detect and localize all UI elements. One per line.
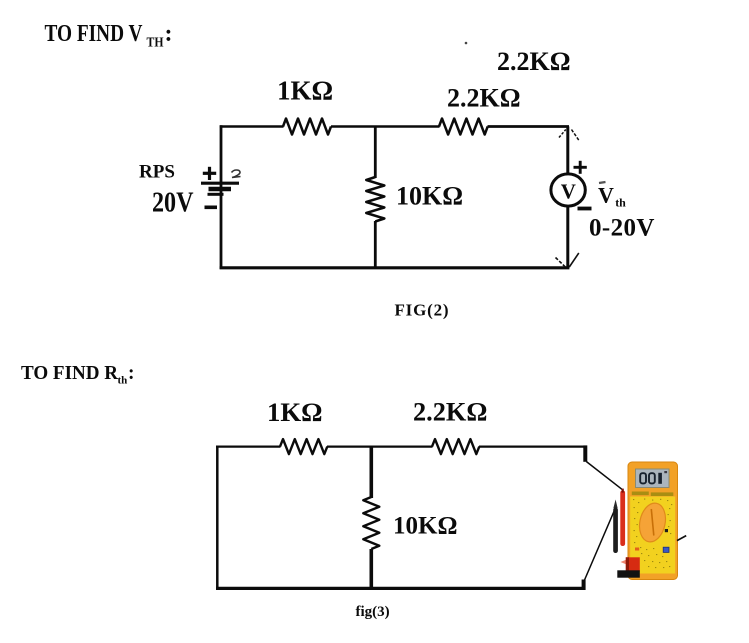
wire fig3 top-middle segment bbox=[327, 445, 433, 447]
svg-text:TO FIND V: TO FIND V bbox=[45, 21, 144, 47]
wire fig2 right branch lower bbox=[566, 206, 569, 268]
battery plus marker bbox=[203, 167, 216, 180]
multimeter black input jack bar bbox=[617, 570, 640, 577]
wire fig2 left branch bbox=[220, 125, 223, 269]
multimeter rotary dial bbox=[636, 501, 669, 545]
svg-text:0-20V: 0-20V bbox=[589, 215, 655, 242]
test lead to red probe bbox=[586, 462, 622, 490]
wire fig2 middle branch lower bbox=[374, 221, 377, 268]
multimeter display digits bbox=[640, 471, 667, 484]
wire fig3 top-right stub bbox=[583, 445, 587, 461]
wire fig3 middle branch lower bbox=[369, 549, 373, 588]
svg-text:1KΩ: 1KΩ bbox=[277, 76, 333, 106]
resistor 10KOhm fig3 bbox=[363, 497, 379, 549]
wire fig2 top-right segment bbox=[488, 125, 570, 128]
test lead to black probe bbox=[584, 507, 616, 581]
black probe bbox=[613, 500, 618, 554]
multimeter blue adjuster bbox=[663, 547, 669, 552]
wire fig2 top-middle segment bbox=[331, 125, 440, 128]
battery minus marker bbox=[205, 206, 218, 210]
svg-text:20V: 20V bbox=[152, 188, 194, 219]
wire fig3 middle branch upper bbox=[369, 447, 373, 498]
wire fig3 bottom bbox=[216, 587, 584, 590]
svg-text:10KΩ: 10KΩ bbox=[393, 513, 457, 540]
svg-text:TO FIND R: TO FIND R bbox=[21, 363, 119, 384]
voltmeter plus marker bbox=[574, 161, 587, 174]
wire fig3 bottom-right stub bbox=[582, 580, 586, 591]
multimeter body bbox=[628, 462, 678, 580]
stray dot bbox=[465, 42, 468, 45]
multimeter yellow panel bbox=[630, 497, 675, 574]
svg-text:fig(3): fig(3) bbox=[356, 604, 390, 620]
multimeter label strip bbox=[632, 492, 674, 497]
title TO FIND Rth bbox=[21, 363, 135, 387]
resistor 1KOhm fig3 bbox=[280, 439, 327, 454]
resistor 2.2KOhm fig3 bbox=[432, 439, 479, 454]
wire fig2 right branch upper bbox=[566, 127, 569, 176]
resistor 1KOhm fig2 bbox=[283, 119, 331, 135]
multimeter right tick mark bbox=[677, 536, 686, 541]
svg-text:1KΩ: 1KΩ bbox=[267, 397, 322, 427]
wire fig3 top-left segment bbox=[216, 445, 281, 447]
red probe bbox=[620, 489, 625, 546]
wire fig2 top-left segment bbox=[220, 125, 284, 128]
svg-text::: : bbox=[165, 21, 173, 47]
svg-text:V: V bbox=[561, 179, 576, 203]
battery RPS 20V fig2 bbox=[201, 183, 239, 194]
svg-text:V: V bbox=[598, 183, 614, 208]
multimeter red input jack bbox=[621, 557, 640, 571]
resistor 2.2KOhm fig2 bbox=[439, 119, 488, 135]
wire fig3 top-right segment bbox=[479, 445, 586, 447]
resistor 10KOhm fig2 bbox=[366, 177, 384, 222]
multimeter black square mark bbox=[665, 529, 668, 532]
svg-text:th: th bbox=[118, 375, 128, 387]
svg-text:2.2KΩ: 2.2KΩ bbox=[447, 84, 521, 113]
arrow into top-right node fig2 bbox=[559, 130, 579, 141]
svg-text:2.2KΩ: 2.2KΩ bbox=[413, 398, 487, 427]
arrow into bottom-right node fig2 bbox=[556, 253, 579, 267]
svg-text:RPS: RPS bbox=[139, 162, 175, 183]
label Vth bbox=[598, 182, 626, 210]
svg-text:10KΩ: 10KΩ bbox=[396, 182, 463, 211]
title TO FIND VTH bbox=[45, 21, 173, 50]
wire fig2 bottom bbox=[220, 266, 570, 269]
voltmeter V fig2 bbox=[551, 174, 585, 206]
multimeter panel markings bbox=[633, 499, 672, 569]
multimeter red panel mark bbox=[635, 548, 639, 551]
voltmeter minus marker bbox=[578, 207, 592, 211]
squiggle artifact near battery bbox=[232, 170, 241, 178]
svg-text:2.2KΩ: 2.2KΩ bbox=[497, 47, 571, 76]
svg-text::: : bbox=[128, 363, 135, 384]
multimeter LCD display bbox=[636, 469, 670, 488]
svg-text:TH: TH bbox=[147, 35, 164, 50]
wire fig3 left branch bbox=[216, 446, 219, 590]
svg-text:FIG(2): FIG(2) bbox=[395, 301, 450, 320]
svg-text:th: th bbox=[615, 196, 626, 210]
wire fig2 middle branch upper bbox=[374, 127, 377, 179]
